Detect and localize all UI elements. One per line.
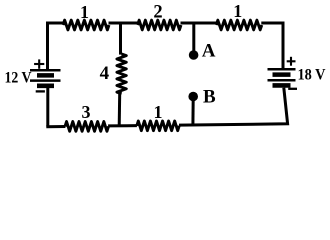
wire: middle branch bottom lead (118, 94, 122, 127)
svg-text:A: A (202, 41, 216, 62)
battery B1 long plate 2 (30, 79, 61, 82)
battery B1 12 V (left side) (30, 59, 61, 91)
wire: node B stub (191, 98, 194, 126)
battery B2 short thick plate 1 (273, 72, 291, 77)
svg-text:12 V: 12 V (5, 70, 32, 87)
resistor R4 value 4 (middle vertical branch) (117, 54, 126, 94)
wire: node A stub (192, 23, 195, 53)
battery B2 18 V (right side) (268, 57, 298, 89)
svg-text:B: B (203, 87, 216, 108)
battery B2 long plate 2 (268, 79, 296, 82)
battery B1 plus sign (34, 63, 44, 65)
battery B1 short thick plate 2 (37, 84, 54, 89)
wire: left side below 12V battery (46, 88, 49, 127)
wire: top rail between R1 and R2 (109, 22, 139, 25)
node B junction dot (188, 92, 198, 102)
wire: top rail between R2 and R3 (181, 22, 218, 25)
wire: bottom rail left segment to corner (46, 125, 65, 128)
wire: left side top corner up from 12V battery (48, 23, 65, 69)
svg-text:3: 3 (82, 102, 91, 122)
battery B1 long plate 1 (30, 69, 61, 72)
resistor R5 value 3 (bottom left) (65, 122, 109, 132)
wire: top rail right corner down to 18V battery (261, 23, 283, 68)
svg-text:1: 1 (80, 2, 89, 22)
battery B1 minus sign (36, 90, 45, 92)
battery B2 long plate 1 (268, 68, 296, 71)
battery B2 minus sign (288, 88, 297, 90)
svg-text:18 V: 18 V (298, 67, 326, 84)
resistor R3 value 1 (top right) (216, 20, 262, 30)
battery B1 short thick plate 1 (37, 73, 54, 78)
battery B2 short thick plate 2 (273, 83, 291, 88)
wire: bottom rail between R6 and R5 (108, 124, 137, 127)
svg-text:1: 1 (233, 1, 242, 21)
resistor R2 value 2 (top middle) (138, 20, 181, 30)
svg-text:4: 4 (100, 63, 110, 84)
battery B2 plus sign (287, 60, 296, 62)
node A junction dot (189, 50, 199, 60)
svg-text:1: 1 (154, 102, 163, 122)
wire: right side below 18V battery and bottom rail right segment (179, 88, 288, 125)
svg-text:2: 2 (153, 3, 162, 23)
resistor R1 value 1 (top left) (63, 20, 109, 30)
wire: middle branch top lead (119, 23, 122, 55)
resistor R6 value 1 (bottom middle) (137, 121, 179, 131)
